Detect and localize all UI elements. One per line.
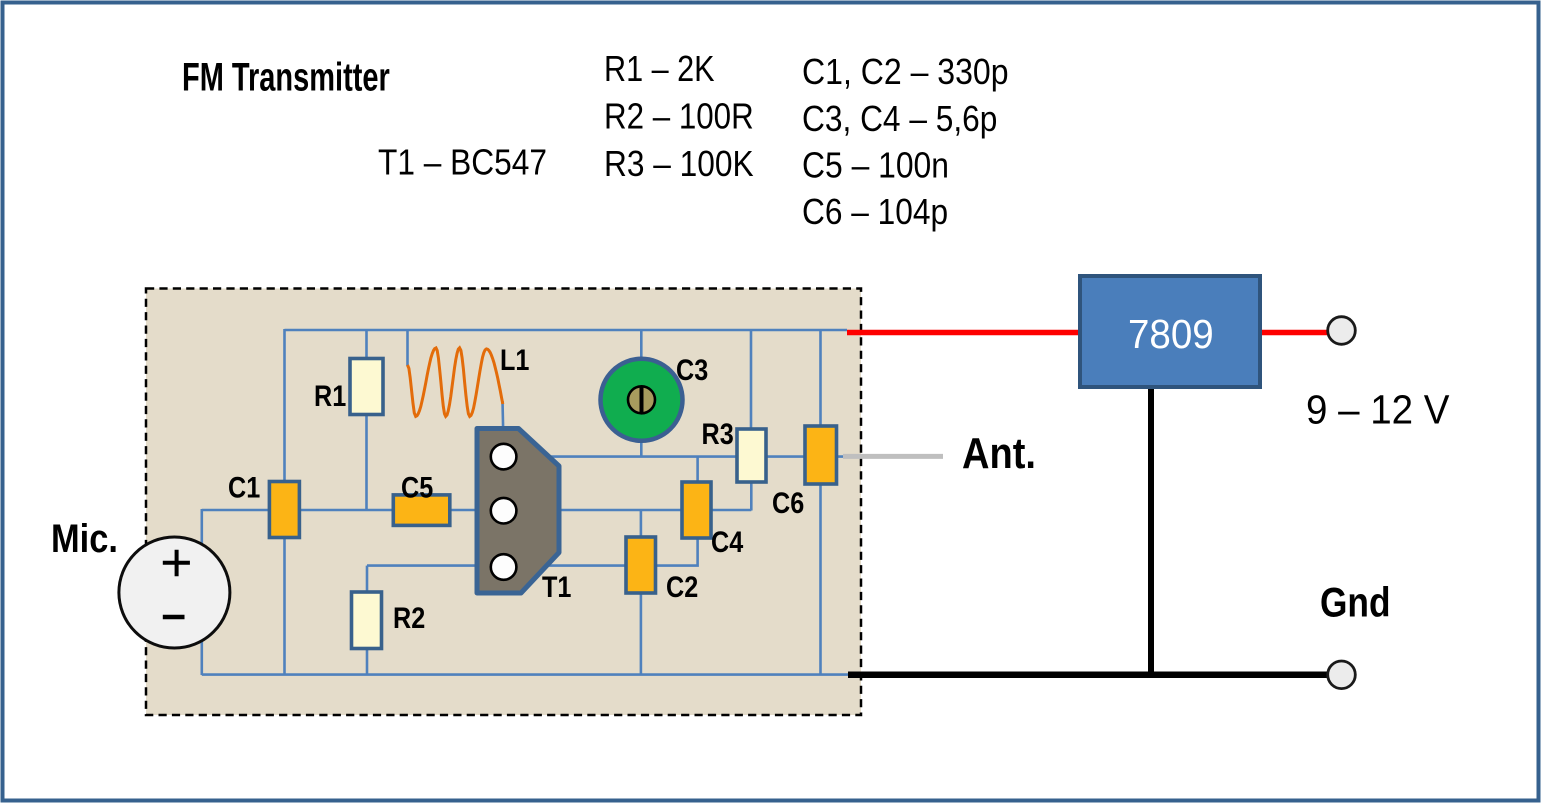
wire R3 top lead	[750, 330, 753, 429]
svg-text:R2 – 100R: R2 – 100R	[604, 96, 754, 137]
wire +V red	[847, 330, 1328, 336]
wire regulator ground	[1148, 386, 1154, 675]
wire R1 branch	[365, 330, 368, 511]
svg-text:Ant.: Ant.	[962, 428, 1036, 477]
wire R3 bottom lead	[750, 482, 753, 511]
resistor R3	[737, 429, 766, 482]
regulator 7809	[1080, 276, 1260, 387]
wire ground rail	[202, 673, 848, 676]
resistor R2	[352, 592, 382, 649]
terminal GND	[1328, 661, 1356, 689]
svg-text:C5 – 100n: C5 – 100n	[802, 146, 949, 186]
wire emitter rail (mic to R3)	[202, 509, 752, 512]
wire R2 bottom lead	[366, 649, 369, 676]
terminal +V	[1328, 317, 1356, 345]
svg-text:L1: L1	[500, 343, 529, 377]
svg-text:T1 – BC547: T1 – BC547	[378, 143, 547, 183]
capacitor C5	[393, 495, 450, 526]
wire L1 top lead	[406, 330, 409, 366]
capacitor C1	[269, 482, 299, 538]
pin 1 (base)	[491, 444, 517, 470]
wire top rail	[285, 329, 848, 332]
wire C6 branch	[819, 330, 822, 675]
capacitor C2	[626, 537, 656, 593]
svg-text:7809: 7809	[1128, 312, 1214, 357]
svg-text:T1: T1	[542, 570, 571, 604]
svg-text:C2: C2	[666, 570, 698, 604]
svg-text:C3, C4 – 5,6p: C3, C4 – 5,6p	[802, 99, 997, 139]
antenna wire	[843, 454, 943, 459]
svg-text:R2: R2	[393, 601, 425, 635]
pin 3 (collector)	[491, 554, 517, 580]
mic plus	[163, 550, 190, 576]
wire ground black	[848, 672, 1328, 679]
microphone	[119, 537, 230, 648]
trimmer capacitor C3	[601, 359, 683, 441]
resistor R1	[350, 359, 383, 415]
svg-text:C1, C2 – 330p: C1, C2 – 330p	[802, 52, 1009, 92]
svg-text:Mic.: Mic.	[51, 516, 118, 561]
svg-text:C4: C4	[711, 525, 744, 559]
mic minus	[163, 615, 185, 620]
wire C2 top drop	[640, 510, 643, 537]
svg-text:R1: R1	[314, 379, 346, 413]
wire C3 branch	[640, 330, 643, 457]
svg-text:C1: C1	[228, 470, 260, 504]
wire collector rail (R2 to C4)	[367, 537, 698, 566]
transistor T1	[477, 429, 559, 594]
svg-text:C3: C3	[676, 353, 708, 387]
wire left vertical	[283, 329, 286, 675]
wire base rail (top pin to antenna)	[504, 455, 847, 458]
svg-text:R3 – 100K: R3 – 100K	[604, 144, 754, 184]
wire C4 top drop	[696, 457, 699, 482]
svg-text:C6 – 104p: C6 – 104p	[802, 192, 948, 232]
svg-text:9 – 12 V: 9 – 12 V	[1306, 387, 1450, 432]
wire C2 bottom lead	[640, 593, 643, 675]
wire R2 top lead	[366, 566, 369, 592]
circuit board	[146, 289, 861, 716]
capacitor C4	[682, 482, 711, 538]
wire L1 bottom lead	[503, 401, 504, 445]
svg-text:C5: C5	[401, 470, 433, 504]
svg-text:FM Transmitter: FM Transmitter	[182, 55, 390, 100]
capacitor C6	[805, 426, 837, 484]
coil L1	[408, 348, 503, 417]
svg-text:R3: R3	[702, 417, 734, 451]
svg-text:C6: C6	[772, 486, 804, 520]
svg-text:R1 – 2K: R1 – 2K	[604, 50, 715, 90]
svg-text:Gnd: Gnd	[1320, 580, 1391, 627]
pin 2 (emitter)	[491, 498, 517, 524]
wire mic vertical	[201, 509, 204, 675]
